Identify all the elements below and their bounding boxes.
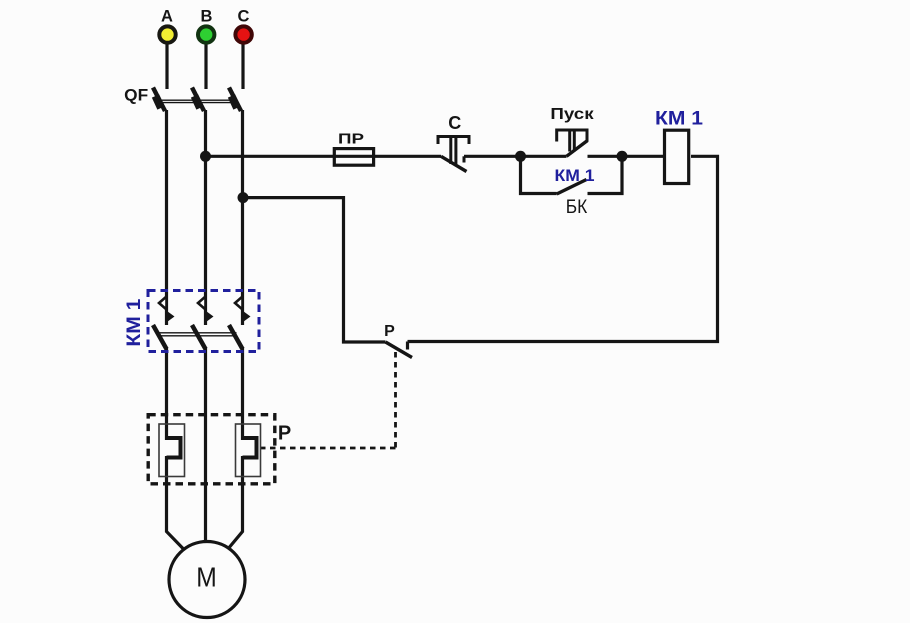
svg-text:A: A [161, 7, 173, 25]
svg-text:QF: QF [124, 86, 148, 105]
svg-text:C: C [238, 7, 250, 25]
svg-text:КМ 1: КМ 1 [555, 167, 595, 185]
svg-text:ПР: ПР [338, 131, 364, 148]
svg-text:M: M [196, 562, 217, 593]
svg-text:B: B [201, 7, 213, 25]
svg-text:P: P [278, 423, 291, 445]
svg-text:КМ 1: КМ 1 [124, 298, 145, 346]
svg-text:C: C [448, 113, 461, 133]
svg-text:БК: БК [566, 197, 588, 218]
svg-text:КМ 1: КМ 1 [655, 109, 703, 130]
svg-text:P: P [384, 323, 395, 340]
svg-text:Пуск: Пуск [550, 106, 594, 123]
